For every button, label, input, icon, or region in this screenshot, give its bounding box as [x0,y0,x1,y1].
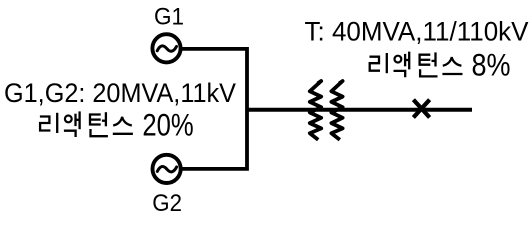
svg-text:8%: 8% [472,47,511,82]
svg-text:G1,G2: 20MVA,11kV: G1,G2: 20MVA,11kV [4,78,236,108]
svg-text:T: 40MVA,11/110kV: T: 40MVA,11/110kV [305,16,529,46]
svg-text:G1: G1 [154,5,184,31]
transformer T secondary coil [331,81,342,140]
label reactance 20% : hangul 턴 [90,112,108,136]
label reactance 8% : hangul 스 [442,57,462,74]
label reactance 20% : hangul 스 [113,117,133,134]
generator G2 [153,155,181,183]
fault mark X [413,100,429,118]
wire G1 lead, bus tie vertical, G2 lead [181,49,247,169]
label reactance 8% : hangul 리 [370,53,387,73]
label reactance 20% : hangul 액 [64,111,80,137]
svg-text:G2: G2 [152,191,182,217]
generator G1 [152,34,180,62]
label reactance 8% : hangul 액 [394,52,410,78]
label reactance 20% : hangul 리 [40,113,57,133]
wire main horizontal line [247,108,472,112]
label reactance 8% : hangul 턴 [420,52,438,76]
svg-text:20%: 20% [142,107,193,142]
transformer T primary coil [310,81,321,140]
